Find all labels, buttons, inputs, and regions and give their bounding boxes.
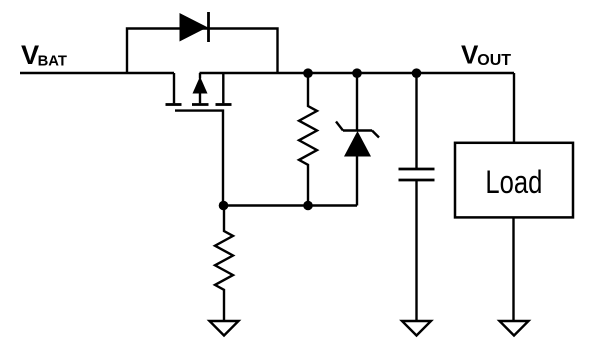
svg-text:Load: Load	[485, 166, 542, 201]
svg-text:BAT: BAT	[38, 53, 67, 69]
svg-text:OUT: OUT	[477, 52, 511, 69]
svg-text:V: V	[461, 40, 479, 70]
svg-text:V: V	[21, 39, 39, 70]
